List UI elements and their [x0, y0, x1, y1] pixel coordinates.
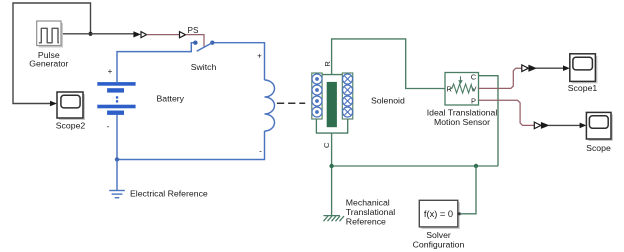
pulse generator block — [39, 23, 63, 48]
wire: PS connection converter to PS element (dark red) — [147, 34, 180, 36]
solenoid right winding circles (crosses) — [343, 74, 353, 117]
Scope1 block — [570, 54, 596, 82]
mechanical translational reference symbol — [323, 216, 344, 222]
wire: converter to Scope (black) — [549, 124, 581, 126]
switch left contact dot — [193, 41, 197, 45]
svg-text:+: + — [257, 52, 262, 61]
junction dot mech rail right — [474, 164, 478, 168]
electrical reference ground symbol — [109, 191, 125, 198]
Scope2 block — [57, 92, 83, 118]
switch right contact dot — [210, 41, 214, 45]
svg-text:Switch: Switch — [191, 62, 217, 72]
switch lever — [197, 43, 213, 52]
sensor spring icon — [450, 84, 475, 93]
arrowhead into Scope1 — [563, 65, 570, 71]
arrowhead into Scope2 — [50, 101, 57, 107]
battery dots — [116, 96, 118, 98]
solenoid bottom connection — [316, 119, 347, 133]
wire: sensor C to mech rail (green) — [479, 76, 499, 166]
arrowhead into Scope — [580, 123, 587, 129]
svg-text:P: P — [471, 97, 476, 106]
svg-text:PS: PS — [188, 26, 199, 35]
svg-text:Translational: Translational — [346, 207, 395, 217]
svg-text:-: - — [107, 122, 110, 131]
solver port square — [458, 212, 461, 215]
battery block — [97, 82, 135, 115]
junction dot bottom rail — [115, 157, 119, 161]
ideal translational motion sensor block — [445, 73, 479, 106]
svg-text:Motion Sensor: Motion Sensor — [434, 117, 490, 127]
sensor arrow icon — [460, 76, 462, 81]
solenoid core — [327, 82, 336, 126]
solver configuration block shadow — [421, 202, 460, 229]
solenoid top connection bar — [322, 74, 343, 76]
svg-text:C: C — [322, 142, 331, 148]
wire: solenoid R up-and-over to sensor R (green) — [332, 39, 445, 89]
PS converter triangle (open) — [180, 32, 186, 38]
svg-text:R: R — [323, 61, 332, 67]
Scope block shadow — [588, 114, 613, 141]
svg-text:Solver: Solver — [426, 230, 451, 240]
svg-text:Generator: Generator — [29, 58, 68, 68]
battery plate long bottom — [97, 105, 135, 109]
inductor coil — [265, 80, 275, 131]
junction dot at pulse generator output — [88, 32, 92, 36]
wire: junction to electrical reference (blue) — [116, 160, 118, 191]
solenoid left winding circles (dots) — [312, 74, 322, 117]
dashed coupling line between inductor and solenoid — [277, 102, 305, 104]
svg-text:Solenoid: Solenoid — [371, 96, 405, 106]
wire: battery + to switch left contact (blue) — [117, 43, 194, 82]
Scope screen icon — [589, 116, 608, 128]
wire: converter to Scope1 (black) — [536, 67, 564, 69]
battery plate short bottom — [107, 111, 124, 115]
Simulink-PS converter triangle (open) — [141, 32, 147, 38]
solver configuration block — [419, 200, 458, 227]
mechanical rail (green) — [332, 165, 498, 167]
wire: Pulse Generator output to Simulink-PS converter (black) — [61, 33, 135, 35]
svg-text:Battery: Battery — [157, 94, 185, 104]
Scope1 block shadow — [572, 56, 598, 84]
svg-text:Reference: Reference — [346, 217, 386, 227]
Scope block — [586, 112, 611, 139]
PS-Simulink converter top (open + filled triangles) — [522, 65, 529, 72]
Scope2 block shadow — [59, 94, 85, 120]
solenoid left bobbin — [312, 73, 322, 119]
battery plate short top — [107, 88, 124, 92]
svg-text:Scope: Scope — [586, 143, 611, 153]
battery plate long top — [97, 82, 135, 86]
Scope1 screen icon — [573, 57, 593, 70]
svg-text:f(x) = 0: f(x) = 0 — [424, 209, 453, 219]
wire: sensor P to PS-Simulink converter (dark red) — [479, 100, 535, 125]
PS-Simulink converter bottom (open + filled triangles) — [534, 122, 541, 129]
junction dot mech rail left — [329, 164, 333, 168]
svg-text:Mechanical: Mechanical — [346, 197, 390, 207]
wire: inductor bottom to bottom rail (blue) — [117, 131, 265, 160]
svg-text:Configuration: Configuration — [413, 240, 465, 250]
wire: battery internal stub — [116, 115, 118, 160]
wire: PS control to switch (dark red) — [186, 35, 204, 47]
svg-text:Scope2: Scope2 — [56, 121, 86, 131]
wire: feedback loop from Pulse Generator output to Scope2 (black) — [13, 3, 91, 104]
wire: solver to mech rail (green) — [461, 166, 476, 214]
svg-text:C: C — [471, 73, 477, 82]
Scope2 screen icon — [61, 95, 80, 108]
wire: solenoid C down to mechanical rail (green) — [331, 133, 333, 216]
solenoid right bobbin — [342, 73, 353, 119]
svg-text:+: + — [108, 67, 113, 76]
svg-text:Scope1: Scope1 — [568, 83, 598, 93]
wire: switch right contact to inductor (blue) — [214, 43, 265, 80]
svg-text:Ideal Translational: Ideal Translational — [427, 108, 498, 118]
arrowhead into converter — [134, 32, 140, 37]
svg-text:-: - — [259, 147, 262, 156]
svg-text:Electrical Reference: Electrical Reference — [130, 189, 208, 199]
pulse waveform icon — [39, 28, 59, 43]
wire: sensor V to PS-Simulink converter (dark red) — [479, 68, 522, 88]
